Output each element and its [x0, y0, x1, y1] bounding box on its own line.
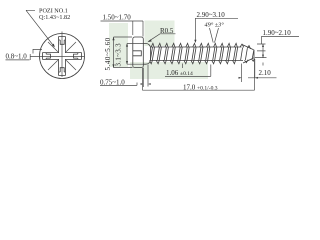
wire [150, 47, 237, 60]
wire taper bottom [243, 58, 254, 63]
node arrowhead [194, 40, 196, 43]
node arrowhead [112, 37, 114, 40]
node screw head side view [133, 37, 144, 68]
node pozi tip notch top [59, 40, 66, 44]
node arrowhead [148, 39, 152, 42]
svg-text:0.8~1.0: 0.8~1.0 [6, 53, 28, 61]
wire shelf [101, 21, 144, 37]
node highlight C [130, 62, 208, 79]
node arrowhead [262, 44, 264, 47]
wire dim lines [100, 65, 148, 88]
node dim 17.0 [142, 59, 254, 91]
wire pozi diagonal wings [48, 42, 76, 70]
wire tip face [253, 50, 255, 58]
wire dim lines [165, 64, 211, 77]
node pozi tip notch left [46, 53, 50, 60]
wire taper top [242, 44, 254, 50]
wire vertical centerline [61, 32, 63, 78]
node arrowhead [52, 44, 55, 48]
node highlight A [109, 23, 128, 67]
wire [149, 60, 235, 63]
node arrowhead [126, 44, 128, 47]
node arrowhead [148, 83, 151, 85]
wire leader [149, 34, 176, 42]
svg-text:2.90~3.10: 2.90~3.10 [197, 11, 226, 19]
wire horizontal centerline [30, 55, 85, 57]
svg-text:49° ±3°: 49° ±3° [205, 22, 225, 29]
svg-text:1.50~1.70: 1.50~1.70 [103, 14, 132, 22]
wire [240, 44, 255, 63]
wire angle legs [210, 28, 219, 43]
wire shelf [195, 18, 238, 41]
wire thread top base line [151, 46, 242, 48]
node highlight B [145, 21, 175, 47]
node front view circle [40, 34, 85, 79]
svg-text:Q:1.43~1.82: Q:1.43~1.82 [39, 14, 70, 21]
wire shelf [255, 37, 299, 66]
node pozi recess cross outline [43, 37, 82, 76]
node arrowhead [112, 64, 114, 67]
node collar under head [143, 44, 150, 65]
wire [241, 48, 254, 61]
wire shelf [242, 59, 277, 82]
node arrowhead [126, 61, 128, 64]
node arrowhead [262, 55, 264, 58]
svg-text:1.06 ±0.14: 1.06 ±0.14 [166, 69, 193, 77]
wire recess side profile [133, 51, 142, 56]
wire leader POZI [26, 10, 54, 46]
svg-text:1.90~2.10: 1.90~2.10 [263, 29, 292, 37]
wire thread bottom base line [151, 59, 244, 61]
svg-text:3.1~3.3: 3.1~3.3 [115, 43, 123, 67]
node arrowhead [255, 77, 258, 79]
node arrowhead [141, 83, 144, 85]
wire dim line [127, 44, 143, 65]
wire [151, 43, 237, 47]
node arrowhead [239, 77, 242, 79]
wire dim underline [6, 49, 43, 60]
svg-text:17.0 +0.1/-0.3: 17.0 +0.1/-0.3 [183, 83, 218, 91]
node pozi tip notch right [74, 53, 78, 60]
svg-text:2.10: 2.10 [259, 69, 272, 77]
wire dim line [114, 37, 133, 68]
svg-text:5.40~5.60: 5.40~5.60 [104, 37, 112, 70]
node pozi tip notch bottom [59, 68, 66, 72]
